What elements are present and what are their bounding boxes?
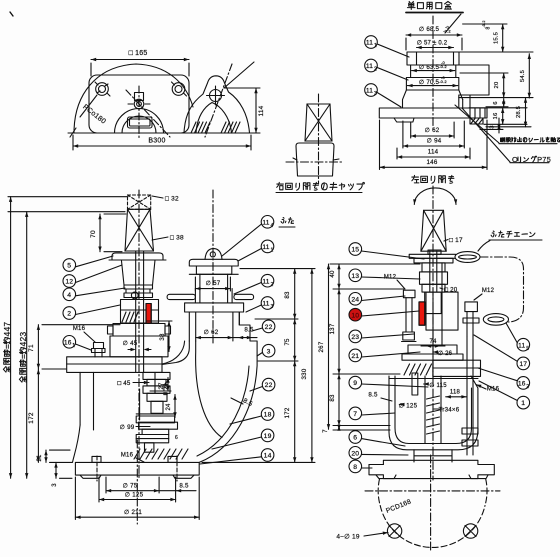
viewD dim 21 — [37, 450, 72, 462]
svg-text:83: 83 — [329, 394, 336, 402]
viewD circ 11-2b — [234, 274, 274, 294]
viewA dim 165 square — [91, 50, 189, 76]
viewD ext fullclose — [8, 197, 128, 212]
viewE red packing E — [419, 302, 425, 325]
viewA lobe centerline — [205, 64, 232, 137]
viewB cap label — [276, 182, 364, 192]
viewC circ 11-3 — [365, 84, 401, 107]
viewE base centerlines — [365, 455, 500, 551]
viewD body walls — [73, 372, 94, 462]
viewD dia57 dim D — [195, 277, 230, 291]
viewE M12 right stud — [463, 302, 479, 337]
viewD circ 18 — [230, 408, 274, 424]
viewD phantom cap — [128, 195, 151, 209]
svg-text:12: 12 — [65, 279, 73, 286]
viewB cap ticks — [293, 158, 339, 160]
viewE bowl outer — [389, 376, 478, 450]
viewE M16 label E — [476, 385, 500, 393]
viewD box hatch — [122, 312, 138, 322]
svg-text:∅ 125: ∅ 125 — [125, 491, 144, 498]
viewA bolt hole right — [172, 82, 187, 96]
svg-text:∅ 62: ∅ 62 — [204, 329, 219, 336]
viewE title E — [412, 175, 454, 183]
svg-text:4−∅ 19: 4−∅ 19 — [336, 534, 359, 541]
svg-text:2: 2 — [526, 384, 529, 390]
svg-text:6: 6 — [353, 435, 357, 442]
svg-text:20: 20 — [351, 450, 359, 457]
svg-text:-0.2: -0.2 — [439, 79, 447, 84]
viewE rotation arc — [413, 188, 457, 205]
viewE circ 21 — [349, 349, 420, 362]
svg-text:8: 8 — [486, 26, 492, 29]
svg-text:□ 32: □ 32 — [165, 196, 179, 203]
svg-text:11: 11 — [518, 342, 525, 349]
viewE M12 left label — [384, 275, 405, 290]
svg-text:13: 13 — [351, 273, 359, 280]
viewA ext B300 — [73, 135, 251, 150]
viewD dim 172R — [284, 361, 296, 462]
svg-text:137: 137 — [329, 323, 336, 334]
viewC right dim 6 — [486, 99, 508, 107]
svg-text:5: 5 — [67, 263, 71, 270]
viewA side lobe inner arc — [196, 103, 232, 134]
svg-text:=: = — [2, 344, 12, 349]
svg-text:24: 24 — [166, 403, 172, 411]
viewD 8.5 wall label — [231, 397, 254, 408]
viewD bayonet lugs — [167, 294, 253, 299]
svg-text:□ 38: □ 38 — [170, 235, 184, 242]
viewE lid bolt E — [462, 337, 478, 455]
svg-text:74: 74 — [429, 339, 437, 345]
viewC flange — [379, 108, 487, 118]
viewD label sq45 — [117, 380, 149, 387]
viewC right dim 16 — [469, 108, 527, 125]
viewE centerline E — [432, 186, 434, 480]
svg-text:22: 22 — [265, 324, 273, 331]
viewA lobe ear hole — [207, 86, 225, 105]
viewD M16 label left — [73, 326, 95, 342]
viewD stem centerline — [138, 190, 140, 480]
viewE circ 24 — [349, 293, 405, 306]
viewD outlet cap body — [189, 266, 238, 274]
viewC dim 146 — [380, 120, 488, 170]
viewE left dim 7 — [322, 425, 390, 433]
viewD dim 8.5b — [159, 483, 196, 493]
viewD gland flange — [108, 324, 171, 337]
viewD bottom flange D — [75, 456, 199, 475]
svg-text:21: 21 — [37, 454, 43, 462]
viewD dim dia75 — [106, 477, 159, 493]
viewD bonnet flange — [67, 357, 162, 373]
svg-text:8: 8 — [353, 464, 357, 471]
svg-text:40: 40 — [329, 270, 336, 278]
viewE label sq20 — [440, 287, 458, 294]
svg-text:∅ 45: ∅ 45 — [123, 340, 138, 347]
viewE circ 9 — [349, 376, 428, 389]
svg-text:Tr34×6: Tr34×6 — [439, 407, 460, 414]
viewE left dim 83E — [329, 374, 390, 426]
svg-text:2: 2 — [271, 282, 274, 288]
viewC right wall section — [459, 65, 489, 108]
viewD dim 83R — [284, 269, 296, 319]
viewD circ 11-1b — [238, 240, 274, 261]
svg-text:23: 23 — [351, 334, 359, 341]
viewA lobe hatch right — [221, 122, 240, 133]
viewE dia26 label — [433, 350, 453, 357]
svg-text:4: 4 — [271, 223, 274, 229]
viewD cap body D — [121, 260, 155, 285]
viewD circ 11-3b — [246, 297, 274, 312]
viewE circ 16-2 — [478, 368, 530, 390]
viewD dim dia62 D — [196, 329, 233, 339]
viewD elbow outer — [199, 312, 257, 462]
viewC note seal — [455, 105, 560, 144]
viewD bonnet — [110, 336, 168, 357]
viewE circ 17 — [474, 335, 530, 370]
viewD outlet neck — [195, 274, 232, 303]
svg-text:7: 7 — [322, 429, 329, 433]
viewD stem lines — [136, 251, 144, 372]
svg-text:330: 330 — [301, 368, 308, 379]
viewA center stem — [128, 93, 150, 109]
svg-text:11: 11 — [366, 88, 373, 95]
viewD dim 70 — [90, 214, 126, 252]
svg-text:5: 5 — [526, 346, 529, 352]
viewE circ 15 — [349, 243, 424, 259]
svg-text:118: 118 — [450, 390, 461, 396]
viewD elbow inner — [196, 341, 222, 438]
svg-text:M16: M16 — [73, 326, 86, 332]
viewE circ 23 — [349, 330, 414, 343]
svg-text:18: 18 — [264, 412, 272, 419]
viewD circ 3 — [257, 344, 275, 357]
viewE lid brim — [409, 250, 455, 263]
viewE Tr label — [434, 407, 460, 414]
viewA bell outer — [115, 108, 164, 133]
viewD mouth flare — [185, 303, 244, 312]
viewD full-open dim — [18, 212, 29, 479]
svg-text:11: 11 — [262, 219, 269, 226]
viewC dim 114c — [397, 148, 470, 159]
viewD M16 label bottom — [121, 453, 144, 463]
svg-text:3: 3 — [267, 348, 271, 355]
viewA dome outline — [74, 64, 193, 133]
viewE chain label — [478, 231, 542, 251]
svg-text:B300: B300 — [148, 138, 165, 145]
viewC band2 — [411, 65, 456, 78]
viewE chain link — [455, 252, 480, 263]
svg-text:-0.2: -0.2 — [439, 64, 447, 69]
viewD base centerline — [136, 440, 138, 524]
viewC centerline — [432, 16, 434, 130]
viewD valve seat — [136, 389, 174, 423]
viewD elbow left wall — [162, 341, 185, 364]
viewC note oring — [462, 108, 551, 164]
viewC title leader — [445, 14, 461, 33]
svg-text:∅ 57: ∅ 57 — [206, 280, 221, 287]
viewD flange lips D — [80, 475, 194, 478]
viewE bolt hole R — [463, 524, 477, 538]
viewE circ 6 — [349, 431, 405, 446]
svg-text:8.5: 8.5 — [244, 327, 254, 334]
svg-text:1: 1 — [72, 343, 75, 349]
viewC right dim 20 — [460, 73, 508, 98]
viewD outlet centerline — [212, 190, 214, 345]
viewD stuffing box — [121, 300, 159, 324]
viewC flange lip — [394, 118, 414, 122]
viewE 118 label — [446, 390, 467, 399]
svg-text:4: 4 — [67, 292, 71, 299]
viewC dim dia70.5 — [407, 75, 457, 87]
viewD dia99 label — [120, 424, 150, 431]
viewA bell vertical centerline — [138, 86, 140, 138]
viewE M12 left stud — [402, 290, 417, 341]
viewE disc area E — [402, 345, 481, 395]
svg-text:16: 16 — [518, 381, 526, 388]
svg-text:1: 1 — [521, 400, 525, 407]
viewD gland circle — [131, 292, 138, 299]
viewD circ 4 — [63, 288, 125, 301]
viewC dim dia63.5 — [412, 60, 455, 72]
svg-text:∅ 63.5: ∅ 63.5 — [419, 64, 440, 71]
viewE body blocks E — [425, 292, 442, 314]
viewD circ 22a — [252, 320, 275, 333]
viewE spindle cone E — [421, 210, 446, 251]
svg-text:21: 21 — [351, 353, 359, 360]
viewE body mid E — [426, 263, 458, 345]
viewD circ 2 — [63, 305, 120, 319]
svg-text:2: 2 — [67, 311, 71, 318]
svg-text:8.5: 8.5 — [368, 392, 378, 399]
svg-text:83: 83 — [284, 291, 291, 299]
viewD seat hatch — [134, 449, 188, 459]
viewC ext dia68.5 — [406, 38, 462, 50]
viewD mouth tube — [189, 312, 239, 341]
viewE bolt hole L — [387, 524, 401, 538]
viewC right dim 15.5 — [482, 20, 504, 52]
svg-text:172: 172 — [284, 407, 291, 418]
viewC taper band — [403, 90, 463, 100]
viewD circ 22b — [250, 378, 275, 391]
svg-text:267: 267 — [318, 341, 325, 352]
viewA corner mark — [10, 12, 13, 16]
svg-text:6: 6 — [175, 435, 178, 441]
viewB cap horizontal centerline — [286, 161, 344, 163]
svg-text:71: 71 — [28, 344, 35, 352]
viewE 4-dia19 label — [336, 532, 388, 541]
viewA bell inner — [122, 116, 156, 133]
viewD circ 14 — [200, 449, 274, 464]
svg-text:M16: M16 — [121, 453, 134, 459]
viewD spindle cone — [125, 209, 154, 251]
viewD elbow wall inner — [197, 366, 249, 456]
viewA bell diagonal centerline — [126, 90, 170, 137]
viewE circ 11-5 — [506, 323, 530, 352]
viewE dia125 label E — [399, 403, 418, 410]
svg-text:11: 11 — [366, 40, 373, 47]
svg-text:8.5: 8.5 — [179, 483, 189, 490]
svg-text:17: 17 — [519, 361, 527, 368]
viewD disc stack — [143, 372, 170, 393]
viewA bolt hole left — [95, 82, 110, 96]
svg-text:□ 165: □ 165 — [129, 50, 148, 57]
viewC oring groove — [470, 118, 483, 124]
viewD dim 8.5 D — [233, 327, 257, 340]
svg-text:54.5: 54.5 — [520, 70, 526, 82]
viewE PCD label E — [385, 498, 412, 514]
viewC circ 11-2 — [365, 59, 408, 80]
svg-text:2: 2 — [374, 67, 377, 73]
svg-text:15.5: 15.5 — [494, 32, 500, 44]
viewD dim 38d — [146, 321, 172, 352]
viewA side lobe outline — [184, 76, 250, 133]
viewD passage left — [162, 341, 189, 365]
svg-text:1: 1 — [271, 248, 274, 254]
svg-text:16: 16 — [493, 113, 499, 120]
viewC title — [406, 1, 463, 12]
svg-text:11: 11 — [262, 278, 269, 285]
viewD outlet cap top — [189, 259, 238, 266]
viewD bonnet bolt — [92, 343, 106, 358]
svg-text:11: 11 — [366, 63, 373, 70]
svg-text:22: 22 — [265, 382, 273, 389]
viewC ext mid right — [459, 97, 533, 99]
svg-text:1: 1 — [374, 43, 377, 49]
viewE circ 13 — [349, 269, 420, 282]
viewE PCD circle — [378, 479, 487, 547]
viewC right dim 3 — [480, 118, 503, 133]
viewE bowl stem — [389, 376, 478, 443]
viewD flange bolt dashes — [97, 456, 177, 481]
viewA lobe leader — [224, 62, 254, 88]
viewD dim dia125 — [99, 477, 176, 502]
viewE flange tabs E — [376, 475, 488, 479]
svg-text:24: 24 — [351, 296, 359, 303]
viewC dim dia62 — [411, 122, 454, 138]
svg-text:14: 14 — [264, 453, 272, 460]
viewD red packing — [146, 304, 151, 324]
svg-text:9: 9 — [353, 380, 357, 387]
viewA flange plate — [89, 75, 189, 133]
svg-text:∅ 115: ∅ 115 — [429, 382, 447, 389]
viewE label sq17 — [444, 237, 463, 244]
svg-text:□ 45: □ 45 — [117, 380, 130, 387]
viewD dim 172L — [28, 369, 40, 462]
viewC band1 bore lines — [417, 52, 454, 65]
svg-text:19: 19 — [264, 433, 272, 440]
viewC dim dia57 — [417, 40, 454, 50]
viewA PCD leader — [80, 95, 97, 117]
viewC dim dia68.5 — [406, 25, 462, 37]
svg-text:11: 11 — [262, 301, 269, 308]
svg-text:∅ 62: ∅ 62 — [425, 127, 440, 134]
viewE hatch E — [404, 364, 432, 375]
viewA PCD label — [81, 103, 107, 126]
svg-text:172: 172 — [28, 412, 35, 424]
viewD label dia45 — [123, 340, 151, 351]
viewD label sq32 — [152, 196, 179, 203]
svg-text:75: 75 — [284, 338, 291, 346]
svg-text:16: 16 — [64, 339, 72, 346]
viewC right dim 28.5 — [486, 98, 531, 127]
viewD dim 3b — [52, 462, 72, 486]
viewC band1 — [407, 52, 459, 65]
svg-text:447: 447 — [2, 322, 12, 337]
viewC circ 11-1 — [365, 36, 409, 57]
svg-text:6: 6 — [493, 101, 499, 104]
viewE 8.5 label E — [368, 392, 392, 401]
viewA dim B300 — [73, 138, 251, 148]
svg-text:11: 11 — [262, 244, 269, 251]
viewA dim 114 — [254, 88, 265, 133]
viewD dim 71 — [28, 325, 120, 369]
svg-text:∅ 99: ∅ 99 — [120, 424, 135, 431]
svg-text:∅ 211: ∅ 211 — [124, 509, 142, 516]
svg-text:∅ 68.5: ∅ 68.5 — [419, 26, 440, 33]
viewD circ 19 — [212, 429, 274, 449]
viewB cap square head — [305, 104, 332, 141]
svg-text:∅ 57 ± 0.2: ∅ 57 ± 0.2 — [417, 40, 448, 47]
viewE left dim 137 — [329, 289, 400, 374]
viewD outlet ear — [205, 249, 222, 260]
svg-text:∅ 75: ∅ 75 — [123, 483, 138, 490]
svg-text:114: 114 — [428, 149, 439, 156]
viewD dim 75R — [284, 319, 296, 361]
viewD dim dia211 — [75, 477, 199, 520]
viewD lift 24 — [163, 383, 176, 418]
viewE circ 8 — [349, 460, 372, 473]
viewE dia115 label — [424, 382, 448, 389]
viewC dim dia94 — [403, 121, 464, 148]
svg-text:146: 146 — [427, 159, 438, 166]
svg-text:3: 3 — [374, 91, 377, 97]
svg-text:∅ 94: ∅ 94 — [427, 138, 442, 145]
svg-text:15: 15 — [351, 247, 359, 254]
svg-text:M16: M16 — [487, 387, 500, 393]
viewB cap centerline — [318, 94, 320, 184]
viewD cap skirt — [109, 253, 166, 260]
svg-text:7: 7 — [353, 411, 357, 418]
viewE neck to flange — [414, 450, 452, 462]
viewE circ 20 — [349, 447, 408, 460]
viewA bell window — [128, 117, 153, 128]
viewE circ 7b — [349, 407, 395, 420]
viewA baseline — [68, 128, 255, 137]
svg-text:3: 3 — [271, 304, 274, 310]
viewE bowl inner — [395, 376, 472, 444]
viewC neck — [403, 100, 463, 108]
svg-text:∅ 125: ∅ 125 — [399, 403, 418, 410]
viewD circ 11-4 — [222, 216, 295, 257]
svg-text:10: 10 — [351, 312, 359, 319]
viewE circ 10 red — [349, 308, 419, 321]
viewD seat rings — [136, 422, 178, 452]
viewE neck stack E — [420, 251, 448, 292]
viewE dim 74 — [421, 339, 445, 348]
viewE left dim 267 — [318, 264, 330, 429]
svg-text:3: 3 — [490, 125, 496, 128]
viewD circ 12 — [63, 265, 122, 287]
viewD circ 16-1 — [63, 336, 91, 351]
viewD label sq38 — [152, 235, 184, 242]
viewE flange E — [369, 460, 494, 478]
viewA lobe hatch left — [191, 122, 210, 133]
viewD dim 27 — [150, 378, 171, 392]
svg-text:70: 70 — [90, 230, 97, 238]
svg-text:3: 3 — [52, 483, 58, 487]
viewD dim 330R — [301, 269, 314, 463]
viewC ext top right — [459, 24, 533, 52]
